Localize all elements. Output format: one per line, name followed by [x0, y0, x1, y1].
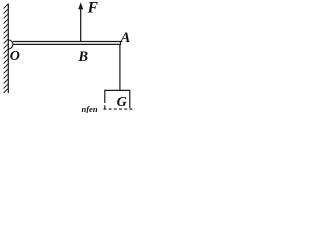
- string from A to weight: [119, 45, 121, 90]
- beam bottom line: [13, 43, 121, 45]
- svg-text:B: B: [77, 49, 88, 65]
- svg-text:O: O: [10, 49, 20, 64]
- svg-text:F: F: [87, 0, 99, 17]
- force arrow head: [78, 2, 83, 9]
- wall hatching: [4, 4, 8, 93]
- svg-text:nfen: nfen: [82, 104, 98, 113]
- weight box left corner dash: [104, 105, 106, 109]
- svg-text:A: A: [120, 30, 131, 46]
- weight box bottom dashed (ground line): [103, 108, 135, 110]
- weight box right side: [129, 90, 131, 108]
- force arrow F shaft: [80, 8, 82, 42]
- beam right end cap: [120, 41, 122, 45]
- background: [0, 0, 135, 113]
- pivot hinge circle at O: [8, 40, 13, 49]
- weight box left side: [104, 90, 106, 103]
- svg-text:G: G: [117, 95, 127, 110]
- beam top line: [13, 41, 121, 43]
- wall line: [7, 4, 9, 94]
- weight box top: [105, 89, 130, 91]
